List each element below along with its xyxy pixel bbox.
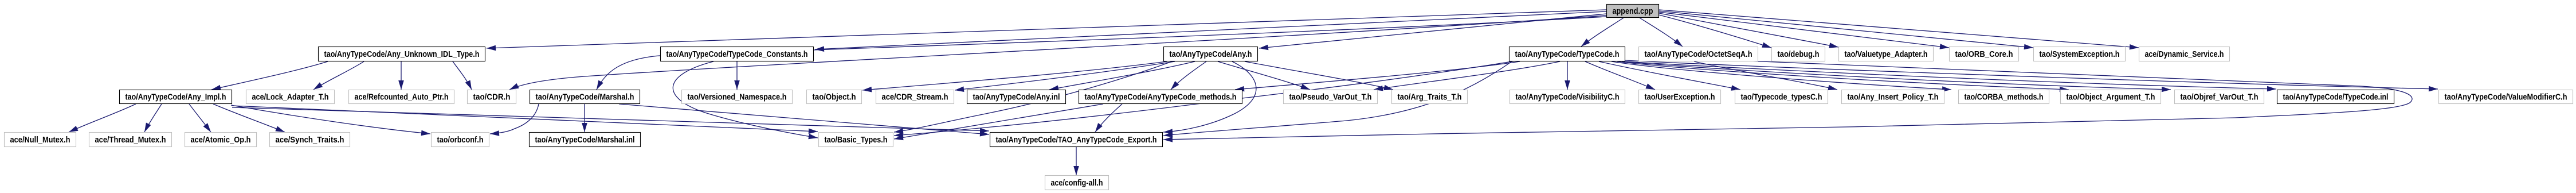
svg-text:tao/orbconf.h: tao/orbconf.h xyxy=(437,136,484,145)
svg-text:tao/Versioned_Namespace.h: tao/Versioned_Namespace.h xyxy=(688,93,787,102)
wire tao/AnyTypeCode/TypeCode.h -> tao/AnyTypeCode/AnyTypeCode_methods.h xyxy=(1235,61,1520,91)
wire tao/AnyTypeCode/Any.h -> tao/AnyTypeCode/AnyTypeCode_methods.h xyxy=(1171,61,1206,90)
svg-text:tao/AnyTypeCode/AnyTypeCode_me: tao/AnyTypeCode/AnyTypeCode_methods.h xyxy=(1085,93,1237,102)
wire tao/AnyTypeCode/Any.h -> tao/AnyTypeCode/TAO_AnyTypeCode_Export.h xyxy=(1163,61,1256,134)
wire append.cpp -> tao/ORB_Core.h xyxy=(1659,12,1949,49)
svg-text:ace/Atomic_Op.h: ace/Atomic_Op.h xyxy=(191,136,251,145)
wire tao/AnyTypeCode/Marshal.h -> tao/AnyTypeCode/Marshal.inl xyxy=(582,104,587,132)
wire tao/AnyTypeCode/Any_Unknown_IDL_Type.h -> tao/CDR.h xyxy=(453,61,472,90)
node tao/orbconf.h xyxy=(432,133,489,147)
node tao/Versioned_Namespace.h xyxy=(682,90,793,104)
svg-text:tao/Object.h: tao/Object.h xyxy=(813,93,856,102)
svg-text:tao/AnyTypeCode/Any.h: tao/AnyTypeCode/Any.h xyxy=(1170,50,1252,59)
node tao/AnyTypeCode/Any.h xyxy=(1164,47,1258,61)
wire tao/AnyTypeCode/Any_Impl.h -> ace/Synch_Traits.h xyxy=(213,104,285,132)
node tao/Objref_VarOut_T.h xyxy=(2175,90,2264,104)
svg-text:append.cpp: append.cpp xyxy=(1613,7,1653,16)
node tao/debug.h xyxy=(1772,47,1825,61)
node ace/Refcounted_Auto_Ptr.h xyxy=(349,90,454,104)
node tao/Typecode_typesC.h xyxy=(1735,90,1828,104)
svg-text:tao/debug.h: tao/debug.h xyxy=(1778,50,1820,59)
wire tao/AnyTypeCode/OctetSeqA.h -> tao/AnyTypeCode/TAO_AnyTypeCode_Export.h xyxy=(1163,61,2412,142)
node ace/Thread_Mutex.h xyxy=(89,133,172,147)
node ace/Null_Mutex.h xyxy=(5,133,76,147)
wire tao/AnyTypeCode/TypeCode.h -> tao/AnyTypeCode/TypeCode.inl xyxy=(1625,61,2276,91)
svg-text:ace/Lock_Adapter_T.h: ace/Lock_Adapter_T.h xyxy=(252,93,329,102)
wire tao/AnyTypeCode/Any_Unknown_IDL_Type.h -> ace/Refcounted_Auto_Ptr.h xyxy=(398,61,404,90)
node ace/Synch_Traits.h xyxy=(270,133,350,147)
node ace/Atomic_Op.h xyxy=(185,133,257,147)
node ace/CDR_Stream.h xyxy=(876,90,954,104)
node ace/config-all.h xyxy=(1045,176,1109,190)
svg-text:tao/Basic_Types.h: tao/Basic_Types.h xyxy=(825,136,888,145)
svg-text:tao/UserException.h: tao/UserException.h xyxy=(1645,93,1715,102)
svg-text:tao/Arg_Traits_T.h: tao/Arg_Traits_T.h xyxy=(1398,93,1462,102)
node tao/AnyTypeCode/Marshal.inl xyxy=(530,133,641,147)
wire append.cpp -> tao/AnyTypeCode/Marshal.h xyxy=(597,17,1606,90)
svg-text:tao/AnyTypeCode/Marshal.inl: tao/AnyTypeCode/Marshal.inl xyxy=(535,136,635,145)
svg-text:tao/AnyTypeCode/VisibilityC.h: tao/AnyTypeCode/VisibilityC.h xyxy=(1516,93,1620,102)
node tao/AnyTypeCode/AnyTypeCode_methods.h xyxy=(1079,90,1242,104)
wire append.cpp -> tao/SystemException.h xyxy=(1659,11,2033,49)
svg-text:ace/Dynamic_Service.h: ace/Dynamic_Service.h xyxy=(2145,50,2224,59)
wire tao/AnyTypeCode/TypeCode.h -> tao/AnyTypeCode/TAO_AnyTypeCode_Export.h xyxy=(1163,61,1512,137)
node tao/AnyTypeCode/TAO_AnyTypeCode_Export.h xyxy=(990,133,1163,147)
wire tao/AnyTypeCode/TypeCode.h -> tao/Objref_VarOut_T.h xyxy=(1622,61,2171,92)
wire tao/AnyTypeCode/TypeCode.h -> tao/Basic_Types.h xyxy=(894,61,1516,138)
svg-text:ace/Synch_Traits.h: ace/Synch_Traits.h xyxy=(276,136,344,145)
wire tao/AnyTypeCode/Any.h -> tao/Arg_Traits_T.h xyxy=(1245,61,1393,90)
svg-text:tao/AnyTypeCode/TAO_AnyTypeCod: tao/AnyTypeCode/TAO_AnyTypeCode_Export.h xyxy=(996,136,1157,145)
wire append.cpp -> tao/AnyTypeCode/TypeCode.h xyxy=(1581,18,1624,47)
node tao/CDR.h xyxy=(468,90,516,104)
wire tao/AnyTypeCode/TypeCode.h -> tao/Object_Argument_T.h xyxy=(1617,61,2069,92)
wire append.cpp -> tao/AnyTypeCode/Any_Unknown_IDL_Type.h xyxy=(487,10,1606,51)
wire tao/AnyTypeCode/TypeCode.h -> tao/UserException.h xyxy=(1585,61,1655,90)
node tao/AnyTypeCode/TypeCode_Constants.h xyxy=(661,47,814,61)
node tao/AnyTypeCode/VisibilityC.h xyxy=(1510,90,1625,104)
svg-text:tao/ORB_Core.h: tao/ORB_Core.h xyxy=(1955,50,2013,59)
node tao/Any_Insert_Policy_T.h xyxy=(1842,90,1944,104)
wire tao/AnyTypeCode/Any_Impl.h -> ace/Atomic_Op.h xyxy=(189,104,211,132)
svg-text:tao/AnyTypeCode/Any_Unknown_ID: tao/AnyTypeCode/Any_Unknown_IDL_Type.h xyxy=(324,50,480,59)
node ace/Lock_Adapter_T.h xyxy=(246,90,335,104)
wire tao/AnyTypeCode/TypeCode.h -> tao/CORBA_methods.h xyxy=(1612,61,1951,92)
wire tao/AnyTypeCode/Any.h -> tao/AnyTypeCode/Any.inl xyxy=(1049,61,1195,91)
wire tao/AnyTypeCode/Any_Impl.h -> tao/Basic_Types.h xyxy=(232,106,818,134)
wire tao/AnyTypeCode/TAO_AnyTypeCode_Export.h -> ace/config-all.h xyxy=(1073,147,1079,175)
svg-text:tao/CORBA_methods.h: tao/CORBA_methods.h xyxy=(1965,93,2044,102)
svg-text:ace/config-all.h: ace/config-all.h xyxy=(1051,179,1103,188)
wire tao/AnyTypeCode/Any_Impl.h -> tao/orbconf.h xyxy=(231,105,430,136)
wire tao/AnyTypeCode/Any_Impl.h -> ace/Null_Mutex.h xyxy=(69,104,136,132)
svg-text:tao/Valuetype_Adapter.h: tao/Valuetype_Adapter.h xyxy=(1845,50,1928,59)
node tao/SystemException.h xyxy=(2034,47,2126,61)
node tao/Pseudo_VarOut_T.h xyxy=(1284,90,1378,104)
svg-text:tao/Pseudo_VarOut_T.h: tao/Pseudo_VarOut_T.h xyxy=(1289,93,1372,102)
node tao/AnyTypeCode/Marshal.h xyxy=(530,90,640,104)
node tao/AnyTypeCode/ValueModifierC.h xyxy=(2439,90,2573,104)
wire tao/AnyTypeCode/Any_Unknown_IDL_Type.h -> ace/Lock_Adapter_T.h xyxy=(313,61,364,90)
svg-text:tao/AnyTypeCode/TypeCode.inl: tao/AnyTypeCode/TypeCode.inl xyxy=(2283,93,2389,102)
svg-text:tao/AnyTypeCode/Any_Impl.h: tao/AnyTypeCode/Any_Impl.h xyxy=(126,93,226,102)
wire tao/AnyTypeCode/Any.h -> tao/Pseudo_VarOut_T.h xyxy=(1218,61,1310,90)
wire tao/AnyTypeCode/Any_Unknown_IDL_Type.h -> tao/AnyTypeCode/Any_Impl.h xyxy=(211,61,328,90)
wire append.cpp -> tao/AnyTypeCode/OctetSeqA.h xyxy=(1640,18,1683,47)
wire append.cpp -> tao/CDR.h xyxy=(509,16,1606,90)
svg-text:ace/Null_Mutex.h: ace/Null_Mutex.h xyxy=(10,136,70,145)
svg-text:tao/Object_Argument_T.h: tao/Object_Argument_T.h xyxy=(2067,93,2155,102)
wire tao/AnyTypeCode/Marshal.h -> tao/orbconf.h xyxy=(490,104,539,136)
wire tao/AnyTypeCode/Any.h -> ace/CDR_Stream.h xyxy=(955,61,1175,92)
wire tao/AnyTypeCode/TypeCode.h -> tao/AnyTypeCode/ValueModifierC.h xyxy=(1625,60,2438,91)
node tao/UserException.h xyxy=(1639,90,1721,104)
node tao/AnyTypeCode/Any_Unknown_IDL_Type.h xyxy=(319,47,485,61)
wire append.cpp -> tao/AnyTypeCode/TypeCode_Constants.h xyxy=(815,11,1606,52)
wire tao/AnyTypeCode/TypeCode_Constants.h -> tao/Basic_Types.h xyxy=(673,61,818,139)
node tao/AnyTypeCode/Any_Impl.h xyxy=(120,90,232,104)
svg-text:tao/AnyTypeCode/Any.inl: tao/AnyTypeCode/Any.inl xyxy=(973,93,1060,102)
wire tao/AnyTypeCode/Any.h -> tao/Basic_Types.h xyxy=(894,61,1172,134)
node tao/Object_Argument_T.h xyxy=(2061,90,2161,104)
svg-text:tao/CDR.h: tao/CDR.h xyxy=(473,93,511,102)
svg-text:tao/Objref_VarOut_T.h: tao/Objref_VarOut_T.h xyxy=(2181,93,2259,102)
wire tao/AnyTypeCode/TypeCode.h -> tao/Typecode_typesC.h xyxy=(1599,61,1740,91)
svg-text:tao/AnyTypeCode/TypeCode_Const: tao/AnyTypeCode/TypeCode_Constants.h xyxy=(666,50,808,59)
svg-text:tao/Typecode_typesC.h: tao/Typecode_typesC.h xyxy=(1741,93,1822,102)
wire tao/AnyTypeCode/Any_Impl.h -> tao/AnyTypeCode/TAO_AnyTypeCode_Export.h xyxy=(232,107,989,133)
wire tao/AnyTypeCode/TypeCode_Constants.h -> tao/Versioned_Namespace.h xyxy=(734,61,740,90)
wire tao/AnyTypeCode/AnyTypeCode_methods.h -> tao/Basic_Types.h xyxy=(894,104,1103,140)
wire tao/AnyTypeCode/TypeCode.h -> tao/Pseudo_VarOut_T.h xyxy=(1374,61,1560,91)
svg-text:tao/AnyTypeCode/OctetSeqA.h: tao/AnyTypeCode/OctetSeqA.h xyxy=(1645,50,1752,59)
node tao/Object.h xyxy=(807,90,862,104)
node tao/Valuetype_Adapter.h xyxy=(1839,47,1934,61)
wire tao/AnyTypeCode/Any.h -> tao/Object.h xyxy=(862,61,1167,92)
wire append.cpp -> tao/Valuetype_Adapter.h xyxy=(1659,13,1838,48)
wire tao/AnyTypeCode/Marshal.h -> tao/AnyTypeCode/TAO_AnyTypeCode_Export.h xyxy=(619,104,989,137)
node ace/Dynamic_Service.h xyxy=(2139,47,2230,61)
svg-text:tao/AnyTypeCode/TypeCode.h: tao/AnyTypeCode/TypeCode.h xyxy=(1515,50,1620,59)
node tao/CORBA_methods.h xyxy=(1959,90,2049,104)
node tao/AnyTypeCode/TypeCode.h xyxy=(1509,47,1625,61)
svg-text:ace/Refcounted_Auto_Ptr.h: ace/Refcounted_Auto_Ptr.h xyxy=(355,93,449,102)
svg-text:ace/CDR_Stream.h: ace/CDR_Stream.h xyxy=(882,93,948,102)
node tao/Basic_Types.h xyxy=(819,133,893,147)
svg-text:tao/AnyTypeCode/Marshal.h: tao/AnyTypeCode/Marshal.h xyxy=(536,93,634,102)
wire tao/AnyTypeCode/Any_Impl.h -> ace/Thread_Mutex.h xyxy=(144,104,162,132)
node append.cpp xyxy=(1607,5,1659,18)
wire append.cpp -> tao/debug.h xyxy=(1659,15,1771,48)
wire append.cpp -> tao/AnyTypeCode/Any.h xyxy=(1259,14,1606,50)
node tao/AnyTypeCode/TypeCode.inl xyxy=(2277,90,2394,104)
node tao/AnyTypeCode/OctetSeqA.h xyxy=(1639,47,1758,61)
svg-text:ace/Thread_Mutex.h: ace/Thread_Mutex.h xyxy=(95,136,166,145)
svg-text:tao/SystemException.h: tao/SystemException.h xyxy=(2040,50,2120,59)
node tao/ORB_Core.h xyxy=(1950,47,2019,61)
node tao/AnyTypeCode/Any.inl xyxy=(967,90,1066,104)
wire tao/AnyTypeCode/AnyTypeCode_methods.h -> tao/AnyTypeCode/TAO_AnyTypeCode_Export.h xyxy=(1095,104,1122,132)
wire tao/AnyTypeCode/TypeCode.h -> tao/AnyTypeCode/VisibilityC.h xyxy=(1565,61,1570,90)
node tao/Arg_Traits_T.h xyxy=(1392,90,1468,104)
svg-text:tao/Any_Insert_Policy_T.h: tao/Any_Insert_Policy_T.h xyxy=(1848,93,1939,102)
svg-text:tao/AnyTypeCode/ValueModifierC: tao/AnyTypeCode/ValueModifierC.h xyxy=(2445,93,2567,102)
wire tao/AnyTypeCode/OctetSeqA.h -> tao/Any_Insert_Policy_T.h xyxy=(1694,61,1837,90)
wire append.cpp -> ace/Dynamic_Service.h xyxy=(1659,10,2139,50)
